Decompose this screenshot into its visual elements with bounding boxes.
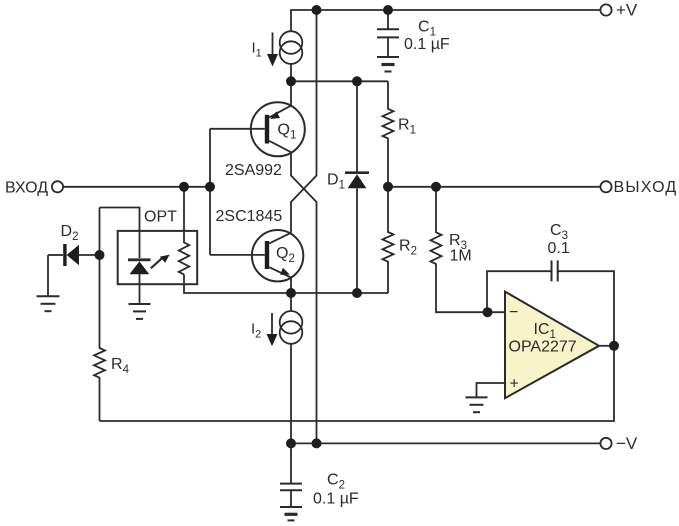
- svg-text:R2: R2: [399, 237, 417, 257]
- svg-text:+V: +V: [616, 1, 638, 20]
- svg-text:2SA992: 2SA992: [225, 162, 282, 179]
- svg-text:0.1 µF: 0.1 µF: [313, 490, 359, 507]
- svg-text:OPT: OPT: [144, 209, 177, 226]
- svg-text:D1: D1: [327, 172, 345, 192]
- svg-text:Q1: Q1: [278, 121, 297, 141]
- svg-text:C2: C2: [327, 472, 345, 492]
- svg-text:0.1: 0.1: [548, 240, 570, 257]
- svg-text:−: −: [509, 304, 518, 321]
- svg-text:2SC1845: 2SC1845: [216, 208, 283, 225]
- svg-text:R1: R1: [398, 116, 416, 136]
- svg-text:0.1 µF: 0.1 µF: [404, 36, 450, 53]
- svg-text:ВЫХОД: ВЫХОД: [614, 179, 678, 196]
- svg-text:R4: R4: [111, 356, 130, 376]
- svg-text:−V: −V: [616, 434, 638, 453]
- svg-text:I1: I1: [252, 40, 262, 60]
- svg-text:I2: I2: [251, 321, 261, 341]
- svg-text:1M: 1M: [450, 247, 472, 264]
- svg-text:+: +: [510, 376, 519, 393]
- svg-text:C3: C3: [550, 222, 568, 242]
- svg-text:ВХОД: ВХОД: [5, 180, 48, 197]
- svg-text:OPA2277: OPA2277: [509, 338, 577, 355]
- svg-text:D2: D2: [61, 223, 79, 243]
- svg-text:Q2: Q2: [276, 245, 295, 265]
